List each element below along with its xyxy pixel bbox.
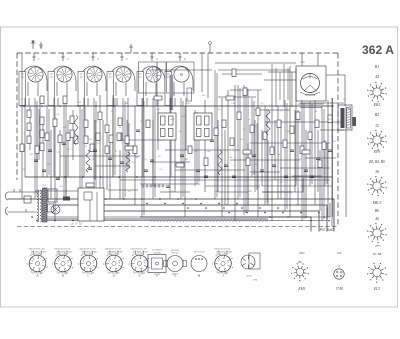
tube socket A <box>27 247 48 277</box>
wire <box>218 191 248 193</box>
chassis hatch <box>150 220 268 223</box>
wire <box>29 106 31 150</box>
resistor R52 <box>125 136 129 144</box>
wire <box>305 157 336 159</box>
svg-text:32: 32 <box>375 124 379 128</box>
capacitor C16 <box>304 170 308 172</box>
svg-text:4700 0,5 50: 4700 0,5 50 <box>216 253 228 256</box>
wire pair <box>255 120 257 192</box>
annotation specks <box>21 99 333 194</box>
wire <box>295 68 297 180</box>
wire <box>320 129 344 131</box>
IF transformer T1 <box>158 113 176 140</box>
wire bundle <box>244 85 248 215</box>
resistor R38 <box>246 158 250 166</box>
resistor R26 <box>290 126 294 134</box>
tube socket H <box>191 252 207 278</box>
dashed enclosure bottom <box>17 226 337 228</box>
svg-text:15k: 15k <box>194 113 197 115</box>
resistor R23 <box>270 147 274 155</box>
wire <box>292 175 322 177</box>
svg-text:109: 109 <box>337 251 342 255</box>
wire <box>24 98 26 177</box>
wire <box>317 130 319 192</box>
resistor R19 <box>237 112 241 120</box>
resistor R49 <box>96 133 100 141</box>
wire pair <box>35 98 37 199</box>
svg-text:44: 44 <box>375 75 379 79</box>
svg-text:0,1: 0,1 <box>21 99 24 101</box>
output tube socket EL3 <box>367 244 387 291</box>
wire pair <box>127 120 129 170</box>
resistor R9 <box>70 116 74 124</box>
wire bundle <box>195 110 199 186</box>
wire pair <box>325 140 327 186</box>
capacitor C28 <box>310 176 314 178</box>
wire <box>204 100 206 192</box>
resistor R55 <box>125 146 133 150</box>
svg-text:15k: 15k <box>292 179 295 181</box>
capacitor C2 <box>48 150 52 152</box>
svg-text:0,1: 0,1 <box>47 189 50 191</box>
pilot socket 1748 <box>334 251 344 291</box>
wire <box>217 120 219 192</box>
wire pair <box>94 98 96 199</box>
wire pair <box>37 106 39 162</box>
detector tube V7 (tuning indicator) <box>296 53 345 108</box>
wire <box>222 73 262 75</box>
bus wire B3 <box>140 217 311 232</box>
dial lamp LP1 <box>51 205 60 214</box>
wire <box>319 150 321 211</box>
bus wire B1 <box>55 205 327 232</box>
svg-text:EBC3: EBC3 <box>372 201 382 205</box>
wire <box>271 100 273 221</box>
svg-text:EK2: EK2 <box>298 251 305 255</box>
wire <box>175 169 245 171</box>
svg-text:0,1: 0,1 <box>269 123 272 125</box>
wire <box>314 100 316 205</box>
wire <box>127 98 129 150</box>
wire <box>50 130 52 199</box>
resistor R6 <box>40 130 44 138</box>
wire <box>215 62 296 64</box>
wire <box>280 120 282 199</box>
wire <box>218 69 290 71</box>
resistor R35 <box>188 146 192 154</box>
resistor R31 <box>328 115 332 123</box>
legend socket diagram <box>367 176 387 196</box>
legend socket diagram <box>367 130 387 150</box>
resistor R39 <box>300 146 304 154</box>
pickup terminal <box>209 44 211 53</box>
wire pair <box>322 106 324 221</box>
resistor R25 <box>283 140 287 148</box>
tube V4 with shield <box>107 53 135 106</box>
resistor on ground bus <box>63 197 70 201</box>
resistor R7 <box>40 143 44 151</box>
wire pair <box>123 98 125 199</box>
wire <box>345 106 347 217</box>
wire <box>152 120 154 186</box>
legend socket diagram <box>367 82 387 102</box>
wire <box>21 53 23 199</box>
wire <box>218 96 256 98</box>
capacitor C8 <box>166 186 170 188</box>
svg-text:B1: B1 <box>375 65 379 69</box>
svg-text:50 PerF 50: 50 PerF 50 <box>194 252 205 254</box>
wire <box>300 185 332 187</box>
chassis bar <box>46 218 268 220</box>
wire pair <box>265 106 267 205</box>
wire <box>84 106 86 140</box>
wire <box>280 167 330 169</box>
resistor R2 <box>27 123 31 131</box>
svg-text:EF5: EF5 <box>374 244 381 248</box>
wire pair <box>142 98 144 217</box>
resistor R20 <box>250 125 254 133</box>
wire <box>221 98 223 217</box>
wire <box>142 98 144 177</box>
wire <box>257 90 259 217</box>
wire <box>106 106 108 190</box>
wire <box>134 106 136 205</box>
wire <box>67 120 69 177</box>
wire <box>72 110 74 160</box>
wire <box>28 98 30 106</box>
resistor R8 <box>53 119 57 127</box>
dashed enclosure right <box>337 53 339 227</box>
svg-text:4700 0,5 50: 4700 0,5 50 <box>82 253 94 256</box>
wire <box>150 161 190 163</box>
resistor R27 <box>296 112 300 120</box>
wire <box>265 121 344 123</box>
dashed enclosure left <box>16 53 18 180</box>
power transformer T4 <box>37 188 57 222</box>
wire <box>184 106 186 217</box>
wire <box>205 185 260 187</box>
wire <box>267 140 269 205</box>
resistor R40 <box>318 160 322 168</box>
svg-text:362 A: 362 A <box>362 43 394 57</box>
wire <box>227 90 229 205</box>
resistor R34 <box>146 120 150 128</box>
wire <box>59 130 61 177</box>
svg-text:(01-935): (01-935) <box>171 249 179 252</box>
wire bundle to detector <box>264 64 296 107</box>
resistor R1 <box>27 110 31 118</box>
antenna terminal <box>31 40 36 49</box>
wire <box>247 143 249 205</box>
svg-text:4700 0,5 50: 4700 0,5 50 <box>56 253 68 256</box>
resistor R45 <box>45 133 49 141</box>
wire pair <box>181 98 183 199</box>
resistor R60 <box>154 96 162 100</box>
capacitor C15 <box>290 150 294 152</box>
resistor R56 <box>243 150 251 154</box>
wire <box>112 98 114 177</box>
wire pair <box>80 106 82 199</box>
resistor R50 <box>109 135 113 143</box>
earth terminal <box>39 42 43 49</box>
resistor R43 <box>90 144 94 152</box>
gram terminal <box>129 44 133 53</box>
svg-text:52-294 0,1: 52-294 0,1 <box>152 249 162 252</box>
wire <box>169 98 171 199</box>
resistor R58 <box>176 163 184 167</box>
tube V3 with shield <box>78 53 106 106</box>
capacitor C6 <box>136 130 140 132</box>
wire <box>119 150 121 199</box>
capacitor C23 <box>144 170 148 172</box>
wire <box>99 95 101 211</box>
resistor R14 <box>105 125 109 133</box>
tube V2 with shield <box>48 53 76 106</box>
capacitor C18 <box>328 150 332 152</box>
svg-text:50 4700: 50 4700 <box>153 251 161 254</box>
wire <box>102 120 104 211</box>
tube V5 with shield <box>137 53 166 106</box>
wire <box>42 120 44 177</box>
filter capacitor block <box>78 188 104 221</box>
svg-text:15k: 15k <box>70 149 73 151</box>
wire <box>156 62 158 106</box>
capacitor C5 <box>108 158 112 160</box>
wire <box>170 98 172 177</box>
bus wire anode supply <box>20 105 334 107</box>
resistor R32 <box>63 96 67 104</box>
resistor R53 <box>232 69 236 77</box>
svg-text:38: 38 <box>375 170 379 174</box>
wire <box>297 110 299 205</box>
svg-text:1748: 1748 <box>335 287 343 291</box>
bus wire ground <box>8 199 334 232</box>
wire corner <box>262 178 303 192</box>
resistor R16 <box>118 133 122 141</box>
dashed enclosure top <box>17 52 338 54</box>
wire <box>65 156 67 199</box>
wire pair <box>310 101 312 186</box>
bus wire B2 <box>100 211 319 232</box>
wire <box>53 98 55 177</box>
capacitor C7 <box>150 160 154 162</box>
svg-text:EF9: EF9 <box>373 150 380 154</box>
capacitor C11 <box>210 140 214 142</box>
capacitor C24 <box>204 176 208 178</box>
capacitor C21 <box>88 168 92 170</box>
svg-text:47-03: 47-03 <box>246 275 252 278</box>
capacitor C19 <box>42 170 46 172</box>
svg-text:1,6 17 7,6: 1,6 17 7,6 <box>70 222 82 225</box>
svg-text:0,1: 0,1 <box>329 118 332 121</box>
wire <box>94 120 96 180</box>
resistor R57 <box>302 150 310 154</box>
svg-text:+1726: +1726 <box>251 279 258 281</box>
resistor R13 <box>98 112 102 120</box>
resistor R29 <box>315 120 319 128</box>
tube socket E <box>129 247 150 277</box>
svg-text:40: 40 <box>375 217 379 221</box>
wire corner <box>262 178 296 186</box>
wire <box>35 190 80 192</box>
resistor R12 <box>84 136 88 144</box>
wire <box>87 98 89 106</box>
tube socket D <box>103 247 124 277</box>
output transformer T3 <box>338 105 352 130</box>
wire <box>174 98 176 106</box>
fuse box F1 <box>24 196 31 203</box>
resistor R5 <box>40 117 44 125</box>
speaker LS <box>353 117 357 126</box>
resistor R61 <box>226 96 234 100</box>
wire <box>83 98 85 177</box>
wire <box>230 89 262 91</box>
svg-text:15k: 15k <box>168 119 171 121</box>
resistor R18 <box>230 138 234 146</box>
wire <box>234 85 236 221</box>
wire <box>165 149 240 151</box>
svg-text:B: B <box>62 273 64 277</box>
resistor R10 <box>70 130 74 138</box>
capacitor C1 <box>34 160 38 162</box>
tube V1 with shield <box>19 53 47 106</box>
wire pair <box>47 106 49 177</box>
bus wire AVC return <box>120 179 330 181</box>
resistor R11 <box>84 120 88 128</box>
wire <box>57 98 59 106</box>
svg-text:4700 0,5 50: 4700 0,5 50 <box>107 253 119 256</box>
tube V6 with shield <box>165 53 194 106</box>
wire pair <box>302 100 304 221</box>
svg-text:A: A <box>36 273 39 277</box>
wire <box>109 140 111 199</box>
capacitor C27 <box>284 176 288 178</box>
wire <box>160 191 190 193</box>
bus wire heater B <box>46 208 327 221</box>
wire <box>230 159 300 161</box>
IF transformer T2 <box>194 113 212 140</box>
tuning indicator socket EM1 <box>291 251 309 291</box>
wire <box>95 165 130 167</box>
resistor R59 <box>86 183 94 187</box>
resistor R46 <box>58 135 62 143</box>
wire <box>185 98 187 150</box>
capacitor C9 <box>180 155 184 157</box>
wire pair <box>215 70 217 199</box>
tube socket J <box>212 247 233 277</box>
capacitor C4 <box>93 150 97 152</box>
tube socket C <box>78 247 99 277</box>
capacitor C20 <box>56 178 60 180</box>
wire <box>157 98 159 150</box>
svg-text:0,1: 0,1 <box>129 190 132 193</box>
resistor R51 <box>117 133 121 141</box>
wire <box>60 155 140 157</box>
resistor R4 <box>40 96 44 104</box>
tube socket G <box>164 249 187 277</box>
wire <box>289 66 291 217</box>
svg-text:EK2: EK2 <box>373 103 381 107</box>
wire <box>146 98 148 106</box>
resistor R54 <box>243 88 247 96</box>
svg-text:15k: 15k <box>96 143 99 145</box>
svg-text:EL3: EL3 <box>373 287 380 291</box>
svg-text:0,1: 0,1 <box>145 159 148 161</box>
capacitor C22 <box>120 162 124 164</box>
capacitor C10 <box>196 170 200 172</box>
resistor R21 <box>256 108 260 116</box>
wire right drop <box>332 98 334 217</box>
resistor R24 <box>277 120 281 128</box>
svg-text:Prl. Schl.: Prl. Schl. <box>319 227 335 232</box>
capacitor C14 <box>272 165 276 167</box>
mains lead wires <box>8 189 37 212</box>
wire <box>201 53 203 92</box>
svg-text:0,1: 0,1 <box>35 102 38 105</box>
resistor R48 <box>74 136 78 144</box>
wire <box>250 142 330 144</box>
resistor R62 <box>126 152 130 172</box>
capacitor C12 <box>224 165 228 167</box>
wire <box>300 102 344 104</box>
resistor R63 <box>218 150 222 175</box>
resistor R60 <box>74 115 78 145</box>
wire <box>261 130 263 186</box>
resistor R42 <box>35 146 39 154</box>
svg-text:B6: B6 <box>375 209 379 213</box>
resistor R30 <box>322 142 326 150</box>
svg-text:B2: B2 <box>375 113 379 117</box>
wire <box>327 100 329 217</box>
capacitor C3 <box>62 143 66 145</box>
tube socket B <box>52 247 73 277</box>
wire <box>277 106 279 199</box>
svg-text:F: F <box>155 273 158 277</box>
resistor R61 <box>86 150 90 172</box>
capacitor C17 <box>316 158 320 160</box>
wave-band switch S1 <box>142 185 144 187</box>
component value labels <box>23 94 346 193</box>
legend socket diagram <box>367 223 387 243</box>
wire <box>262 191 292 193</box>
resistor R33 <box>133 146 137 154</box>
resistor R44 <box>105 146 109 154</box>
wire <box>294 110 296 192</box>
bus wire heater A <box>46 203 330 217</box>
resistor R17 <box>222 120 226 128</box>
wire <box>274 120 276 180</box>
wire pair <box>238 85 240 199</box>
resistor R15 <box>118 118 122 126</box>
capacitor C26 <box>260 170 264 172</box>
wire <box>39 98 41 150</box>
wire <box>255 109 290 111</box>
wire <box>331 98 333 226</box>
wire pair <box>252 98 254 177</box>
resistor R28 <box>308 132 312 140</box>
wire pair <box>153 98 155 199</box>
wire <box>250 171 280 173</box>
wire <box>174 130 176 192</box>
capacitor C25 <box>232 176 236 178</box>
shield channel <box>170 75 174 110</box>
svg-text:E: E <box>138 273 141 277</box>
wire <box>140 183 200 185</box>
wire pair <box>64 98 66 199</box>
svg-text:4700 0,5 50: 4700 0,5 50 <box>133 253 145 256</box>
wire <box>305 130 307 217</box>
mains plug <box>6 192 9 215</box>
